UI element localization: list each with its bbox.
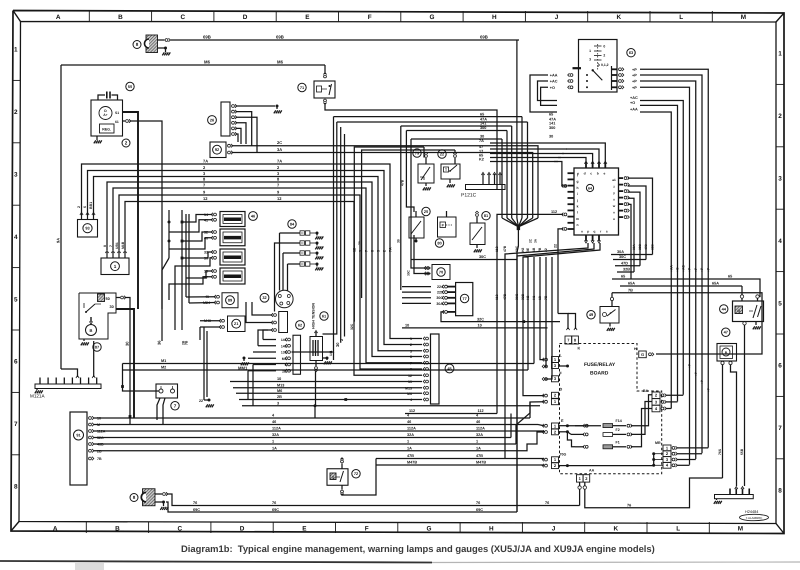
svg-text:+O: +O bbox=[550, 86, 555, 90]
wire 2 upper vertical bbox=[406, 131, 414, 213]
svg-text:4: 4 bbox=[272, 414, 275, 418]
svg-text:H: H bbox=[634, 347, 637, 351]
svg-text:w: w bbox=[612, 204, 616, 208]
svg-text:2: 2 bbox=[277, 165, 280, 170]
svg-text:30: 30 bbox=[125, 341, 130, 346]
wire 141 mid vertical bbox=[292, 117, 334, 352]
diode pair row 4 bbox=[300, 262, 304, 266]
idle valve 70 box bbox=[432, 265, 450, 280]
svg-text:1: 1 bbox=[666, 445, 669, 450]
frame bottom column divider bbox=[397, 522, 399, 533]
earth strip M121A pin arrows bbox=[76, 376, 79, 379]
coil 7 terminals bbox=[159, 389, 163, 393]
wire 7 bundle A bbox=[113, 188, 422, 363]
connector AA squares bbox=[577, 475, 584, 482]
component label circle 89 bbox=[226, 296, 235, 305]
svg-text:P121C: P121C bbox=[461, 193, 477, 199]
wire 26 pin3 loop to 3A bbox=[236, 117, 258, 152]
svg-text:2: 2 bbox=[585, 476, 588, 481]
fuse F2 leads bbox=[585, 433, 588, 436]
ignition switch 63 wiper bbox=[592, 69, 594, 71]
svg-text:7B: 7B bbox=[97, 457, 102, 461]
wire H1 vertical to M1 bbox=[533, 257, 535, 364]
svg-text:50: 50 bbox=[128, 84, 132, 89]
svg-text:7A: 7A bbox=[203, 159, 208, 164]
component label circle 8 top bbox=[133, 41, 141, 49]
svg-text:65: 65 bbox=[728, 275, 732, 279]
distributor HT leads up bbox=[279, 233, 281, 291]
svg-text:3: 3 bbox=[554, 376, 557, 381]
wire 2B row bbox=[239, 399, 422, 401]
board wire F1 out bbox=[631, 409, 652, 447]
wire 141 lower vertical bbox=[333, 352, 335, 360]
wire switch 22 riser bbox=[362, 150, 455, 298]
svg-text:G: G bbox=[429, 14, 434, 21]
funnel junction square bbox=[517, 227, 520, 230]
frame bottom column divider bbox=[85, 522, 87, 533]
svg-text:v: v bbox=[613, 210, 615, 214]
svg-text:n: n bbox=[576, 223, 578, 227]
left harness diagonal bbox=[162, 258, 169, 309]
frame top column divider bbox=[213, 11, 215, 22]
battery 1 pins bbox=[106, 252, 108, 258]
frame top column divider bbox=[275, 11, 277, 22]
fuse connector D pins bbox=[545, 394, 548, 397]
svg-text:30C: 30C bbox=[436, 296, 443, 300]
component label circle 20 bbox=[422, 207, 430, 215]
svg-text:7: 7 bbox=[410, 361, 412, 365]
diode row 2 ground bbox=[316, 243, 318, 246]
svg-text:47B: 47B bbox=[476, 454, 483, 458]
wires 45 lower rows from left bbox=[230, 381, 422, 383]
connector 8 bottom hatched block bbox=[143, 489, 156, 506]
svg-text:D: D bbox=[240, 526, 245, 533]
P121C pins bbox=[482, 174, 484, 185]
component label circle 87 bbox=[93, 343, 101, 351]
svg-text:8: 8 bbox=[133, 495, 136, 500]
sender unit 91 box bbox=[70, 412, 87, 485]
wire M2 bbox=[123, 369, 529, 371]
svg-text:1: 1 bbox=[579, 476, 582, 481]
injector pin 32 bbox=[214, 231, 217, 234]
left harness drop to 22 ground bbox=[199, 327, 201, 340]
wire battery positive thick bbox=[123, 112, 139, 309]
diode pair row 3 bbox=[300, 251, 304, 255]
svg-text:30: 30 bbox=[335, 342, 340, 347]
svg-text:112A: 112A bbox=[407, 427, 416, 431]
frame left row divider bbox=[12, 267, 20, 269]
injector 3 body bbox=[220, 249, 245, 265]
wire 26 pin4 loop bbox=[236, 123, 247, 144]
svg-text:141: 141 bbox=[329, 350, 333, 356]
svg-text:MM1: MM1 bbox=[238, 366, 248, 371]
frame right row divider bbox=[776, 146, 784, 148]
wire 1 bottom bundle bbox=[94, 443, 517, 445]
svg-text:77: 77 bbox=[462, 296, 466, 301]
wire ECU y to 30C bbox=[628, 186, 646, 260]
svg-text:112: 112 bbox=[478, 409, 484, 413]
component label circle 1 bbox=[111, 262, 120, 271]
component label circle 63 bbox=[627, 49, 635, 57]
wire AA1 to 76 bbox=[579, 489, 581, 505]
board wire F14 out bbox=[631, 395, 652, 426]
frame bottom column divider bbox=[584, 522, 586, 533]
svg-text:1A: 1A bbox=[407, 446, 412, 450]
svg-text:8: 8 bbox=[277, 177, 280, 182]
wire M6 to relay 71 bbox=[324, 65, 326, 74]
wire 2 bundle A bbox=[88, 171, 423, 345]
svg-text:x: x bbox=[613, 197, 615, 201]
svg-text:7B: 7B bbox=[544, 295, 548, 300]
diode row 3 ground bbox=[316, 253, 318, 256]
svg-text:5: 5 bbox=[778, 300, 782, 307]
svg-text:2: 2 bbox=[778, 113, 782, 120]
frame top column divider bbox=[88, 11, 90, 22]
svg-text:1: 1 bbox=[14, 47, 18, 54]
svg-text:84: 84 bbox=[290, 221, 295, 226]
fusible link box 93 bbox=[78, 220, 98, 238]
svg-text:92: 92 bbox=[215, 147, 220, 152]
svg-text:4: 4 bbox=[407, 414, 410, 418]
wire ECU x to 47D bbox=[628, 192, 640, 266]
ignition switch 63 key positions bbox=[597, 44, 599, 71]
alternator 2 outer box bbox=[91, 100, 123, 136]
oil pressure switch 49 box bbox=[600, 307, 619, 324]
earth strip pin arrows bbox=[735, 487, 738, 490]
connector 7-8 squares bbox=[565, 336, 572, 344]
connector 92 pins bbox=[228, 144, 231, 147]
svg-text:72: 72 bbox=[354, 471, 359, 476]
component label circle 49 bbox=[587, 311, 595, 319]
wire funnel merge x=502 bbox=[502, 218, 518, 227]
svg-text:T.ALAMBRE: T.ALAMBRE bbox=[746, 516, 763, 520]
svg-text:65: 65 bbox=[549, 112, 553, 116]
svg-text:G: G bbox=[641, 352, 644, 357]
svg-text:E: E bbox=[305, 14, 310, 21]
component label circle 79 bbox=[413, 149, 421, 157]
svg-text:61: 61 bbox=[115, 120, 119, 124]
sensor 79 ground bbox=[425, 183, 427, 186]
svg-text:M: M bbox=[738, 526, 743, 533]
svg-text:2: 2 bbox=[203, 165, 206, 170]
connector AA pins bbox=[578, 486, 581, 489]
svg-text:+P: +P bbox=[632, 86, 637, 90]
board wire 70G to MR bbox=[567, 465, 653, 467]
frame top column divider bbox=[400, 11, 402, 22]
diode wire row2 bbox=[275, 243, 301, 312]
svg-text:3: 3 bbox=[277, 171, 280, 176]
ECU 64 right pin circles bbox=[624, 177, 627, 180]
svg-text:32A: 32A bbox=[272, 433, 279, 437]
ignition switch 63 battery tab bbox=[573, 67, 582, 69]
ground at 8 top bbox=[165, 48, 167, 52]
frame top column divider bbox=[151, 11, 153, 22]
svg-text:112: 112 bbox=[409, 409, 415, 413]
frame bottom column divider bbox=[272, 522, 274, 533]
svg-text:S1: S1 bbox=[115, 111, 119, 115]
wire 1A bottom bundle bbox=[94, 450, 522, 452]
component label circle 47 bbox=[722, 328, 730, 336]
svg-text:F1: F1 bbox=[616, 441, 620, 445]
wire 7A bend to ECU top pin e bbox=[570, 143, 605, 163]
svg-text:2: 2 bbox=[666, 451, 669, 456]
wire 141 harness row bbox=[401, 125, 512, 127]
wire 224 to sensor 77 bbox=[402, 286, 431, 288]
sensor 20 box bbox=[409, 217, 424, 238]
injector pin 30 bbox=[214, 256, 217, 259]
svg-text:69B: 69B bbox=[480, 35, 488, 40]
svg-text:8: 8 bbox=[136, 42, 139, 47]
svg-text:6: 6 bbox=[14, 359, 18, 366]
svg-text:7A: 7A bbox=[388, 247, 392, 252]
junction dot 8 top bbox=[158, 47, 165, 49]
relay 71 top pin bbox=[324, 75, 327, 78]
wire 30 long vertical bbox=[400, 126, 402, 290]
svg-text:112: 112 bbox=[495, 294, 499, 300]
frame right row divider bbox=[776, 333, 784, 335]
wire 32C from 77 bbox=[441, 312, 560, 322]
diode row 4 ground bbox=[316, 264, 318, 267]
svg-text:G: G bbox=[426, 526, 431, 533]
wire +P row3 bbox=[640, 81, 696, 459]
svg-text:B: B bbox=[725, 351, 728, 355]
relay 71 internal contact bbox=[317, 86, 322, 92]
relay 44 coil square bbox=[735, 306, 743, 314]
svg-text:30A: 30A bbox=[617, 250, 624, 254]
svg-text:1: 1 bbox=[554, 457, 557, 462]
coil 7 HT leads down bbox=[157, 398, 160, 420]
wire 26 pin2 loop to 2C bbox=[236, 112, 252, 146]
amplifier connector 62 body bbox=[293, 335, 301, 374]
svg-text:2: 2 bbox=[382, 250, 386, 252]
fuse connector L pins bbox=[545, 358, 548, 361]
svg-text:87: 87 bbox=[95, 344, 99, 349]
earth strip M121A prongs bbox=[39, 378, 41, 385]
svg-text:62: 62 bbox=[298, 322, 303, 327]
svg-text:76: 76 bbox=[627, 503, 631, 507]
diode pair row 1 bbox=[300, 231, 304, 235]
sensor 80 top pin bbox=[446, 211, 448, 217]
earth strip M121A ground bbox=[36, 389, 38, 391]
wire 69B vertical drop bbox=[516, 40, 518, 218]
svg-text:+P: +P bbox=[700, 267, 704, 272]
svg-text:8: 8 bbox=[410, 355, 412, 359]
svg-text:20: 20 bbox=[424, 209, 428, 214]
relay 72 box bbox=[327, 469, 348, 486]
component label circle 46 bbox=[249, 212, 258, 221]
svg-text:26: 26 bbox=[210, 117, 215, 122]
coil 7 box bbox=[156, 384, 178, 398]
wire 32B vertical bbox=[523, 243, 600, 396]
svg-text:M: M bbox=[741, 14, 746, 21]
svg-text:B: B bbox=[118, 14, 123, 21]
svg-text:L: L bbox=[676, 526, 680, 533]
svg-text:65A: 65A bbox=[628, 282, 635, 286]
svg-text:10: 10 bbox=[405, 324, 409, 328]
wire 47D row bbox=[615, 265, 640, 267]
stair 4 to D2 bbox=[530, 402, 544, 418]
svg-text:12: 12 bbox=[203, 196, 208, 201]
wire 65 harness row bbox=[334, 116, 523, 118]
svg-text:69C: 69C bbox=[515, 245, 519, 252]
relay 72 coil square bbox=[330, 473, 336, 480]
junction dots rows bbox=[344, 398, 347, 401]
wire 62 pin 2B to gauge row bbox=[248, 370, 276, 372]
component label circle 32 bbox=[260, 293, 269, 302]
frame top column divider bbox=[462, 11, 464, 22]
svg-text:30C: 30C bbox=[515, 293, 519, 300]
component label circle 92 bbox=[213, 145, 222, 154]
svg-text:h: h bbox=[576, 186, 578, 190]
wire 50 from solenoid bbox=[116, 297, 120, 299]
connector MR left dots bbox=[652, 452, 655, 455]
wire 30C vertical bbox=[517, 243, 594, 512]
svg-text:7: 7 bbox=[277, 183, 280, 188]
svg-text:7A: 7A bbox=[479, 139, 484, 143]
svg-text:112: 112 bbox=[495, 246, 499, 252]
wire 47A engine harness drop bbox=[527, 122, 529, 218]
relay 72 top pin bbox=[341, 464, 343, 469]
frame bottom column divider bbox=[459, 522, 461, 533]
wire 30 engine harness drop bbox=[501, 139, 503, 218]
svg-text:71: 71 bbox=[300, 85, 305, 90]
fuel pump 47 pins bbox=[721, 361, 724, 364]
wire 32A bottom bundle bbox=[94, 437, 512, 439]
wire 2C bbox=[232, 146, 539, 218]
svg-text:k: k bbox=[577, 205, 579, 209]
svg-text:76: 76 bbox=[193, 501, 197, 505]
idle valve 70 pins bbox=[427, 267, 430, 270]
module 21 box bbox=[228, 316, 246, 332]
wire AA2 to 76 right bbox=[585, 478, 723, 508]
starter solenoid 87 outline bbox=[79, 293, 116, 339]
sensor 81 thermistor bbox=[472, 227, 482, 240]
svg-text:+P: +P bbox=[632, 68, 637, 72]
svg-text:9: 9 bbox=[203, 190, 206, 195]
svg-text:64: 64 bbox=[588, 186, 592, 190]
connector 92 box bbox=[210, 142, 226, 158]
svg-text:4: 4 bbox=[476, 414, 479, 418]
svg-text:32C: 32C bbox=[350, 323, 354, 330]
component label circle 77 bbox=[460, 294, 468, 302]
frame bottom column divider bbox=[646, 522, 648, 533]
svg-text:M3: M3 bbox=[282, 357, 287, 361]
starter 87 arm bbox=[90, 317, 92, 322]
ground 22 middle bbox=[208, 399, 211, 402]
svg-text:112A: 112A bbox=[272, 427, 281, 431]
starter 87 ground bbox=[83, 339, 85, 341]
wire 30C label row bbox=[411, 259, 517, 261]
stair 1A bbox=[521, 432, 544, 451]
svg-text:224: 224 bbox=[437, 285, 443, 289]
svg-text:47B: 47B bbox=[503, 293, 507, 300]
frame bottom column divider bbox=[708, 522, 710, 533]
svg-text:H24484: H24484 bbox=[745, 510, 758, 514]
svg-text:8: 8 bbox=[203, 177, 206, 182]
wire earth strip to starter ground bbox=[93, 341, 95, 377]
svg-text:38C: 38C bbox=[638, 243, 642, 250]
sensor 20 top pin bbox=[415, 211, 417, 217]
svg-text:+O: +O bbox=[676, 267, 680, 272]
relay 71 box bbox=[314, 81, 335, 98]
svg-text:21: 21 bbox=[234, 321, 239, 326]
svg-text:2B: 2B bbox=[282, 369, 287, 373]
component label circle 7 bbox=[171, 402, 179, 410]
component label circle 26 bbox=[208, 116, 217, 125]
vertical M9 pair bbox=[206, 331, 208, 397]
svg-text:F2: F2 bbox=[616, 428, 620, 432]
svg-text:76: 76 bbox=[272, 501, 276, 505]
wire 65 to ECU top bbox=[490, 157, 561, 159]
ECU 64 left pin circles bbox=[564, 185, 567, 188]
svg-text:30C: 30C bbox=[479, 255, 486, 259]
wire +O loop bbox=[541, 87, 557, 105]
svg-text:1A: 1A bbox=[476, 446, 481, 450]
svg-text:FUSE/RELAY: FUSE/RELAY bbox=[584, 362, 616, 368]
wire 17 to ECU top bbox=[490, 153, 564, 155]
earth strip M121A bar bbox=[35, 384, 101, 389]
connector H pin bbox=[649, 353, 652, 356]
svg-text:e: e bbox=[603, 172, 605, 176]
wire ECU z to 30A bbox=[628, 178, 653, 254]
injector pin 14 bbox=[214, 213, 217, 216]
svg-text:300: 300 bbox=[480, 126, 486, 130]
svg-text:1: 1 bbox=[407, 440, 409, 444]
wire 47B bottom bundle bbox=[420, 458, 543, 460]
board wire F2 out bbox=[631, 402, 652, 435]
svg-text:A+: A+ bbox=[103, 113, 107, 117]
wire 22 ground stub bbox=[203, 327, 205, 400]
sensor unit 77 box bbox=[456, 283, 473, 316]
wire K2 to ECU top bbox=[490, 161, 558, 163]
frame right row divider bbox=[776, 395, 784, 397]
alternator ground bbox=[96, 136, 98, 140]
svg-text:18: 18 bbox=[538, 296, 542, 300]
wire 62 pin 3 to gauge row bbox=[253, 364, 276, 366]
svg-text:+O: +O bbox=[630, 101, 635, 105]
svg-text:47D: 47D bbox=[621, 262, 628, 266]
svg-text:3: 3 bbox=[410, 349, 412, 353]
injector 2 body bbox=[220, 229, 245, 246]
component label circle 21 bbox=[232, 319, 241, 328]
component label circle 44 bbox=[720, 305, 728, 313]
wire 76 row bbox=[167, 494, 580, 506]
relay 44 box bbox=[733, 301, 764, 322]
wire 30A to sensor 77 bbox=[402, 302, 431, 304]
connector 8 top hatched block bbox=[146, 35, 158, 53]
alternator 2 regulator box bbox=[100, 124, 115, 133]
svg-text:36: 36 bbox=[157, 340, 162, 345]
svg-text:MR: MR bbox=[655, 441, 661, 445]
svg-text:g: g bbox=[576, 180, 578, 184]
battery box 1 bbox=[101, 258, 129, 275]
connector BA pins bbox=[661, 394, 664, 397]
svg-text:M6: M6 bbox=[204, 60, 211, 65]
svg-text:2: 2 bbox=[655, 393, 658, 398]
svg-text:2: 2 bbox=[125, 141, 128, 146]
junction square on wire 50 bbox=[129, 415, 132, 418]
earth strip MF bar bottom right bbox=[715, 495, 754, 499]
wires to module 89 bbox=[186, 296, 216, 298]
svg-text:E: E bbox=[302, 526, 307, 533]
wire 69B feed from 8 bbox=[158, 39, 165, 41]
connector 7-8 pins bbox=[566, 328, 569, 331]
svg-text:+P: +P bbox=[694, 267, 698, 272]
frame left row divider bbox=[12, 142, 20, 144]
svg-text:30: 30 bbox=[396, 239, 400, 243]
wire H2 vertical to M2 bbox=[523, 256, 528, 258]
svg-text:70: 70 bbox=[439, 269, 443, 274]
